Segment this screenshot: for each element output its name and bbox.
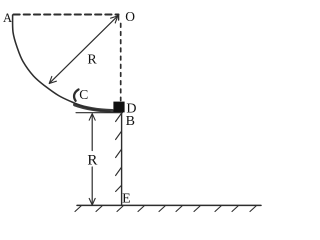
wall hatch 3: [116, 150, 122, 158]
arrowhead at arc end: [49, 76, 56, 83]
wall hatch 1: [116, 114, 122, 122]
measurement line lower segment: [91, 167, 93, 205]
corner tick at O: [118, 15, 120, 21]
wall hatch 2: [116, 132, 122, 140]
arrowhead at O end: [111, 16, 118, 23]
ground line: [77, 204, 261, 206]
svg-text:O: O: [125, 9, 135, 24]
down arrowhead: [89, 198, 95, 205]
dashed vertical line O-D: [120, 24, 122, 101]
arc track A to D: [13, 15, 110, 111]
up arrowhead: [89, 114, 95, 121]
platform underside line: [76, 112, 123, 114]
svg-text:A: A: [3, 11, 12, 25]
svg-text:E: E: [122, 191, 131, 206]
radius R arrow line: [50, 16, 118, 83]
thick track segment near D: [75, 105, 112, 111]
svg-text:R: R: [87, 153, 97, 169]
wall hatch 4: [116, 168, 122, 176]
measurement line upper segment: [91, 115, 93, 151]
small object mark at C: [74, 90, 78, 101]
svg-text:R: R: [87, 53, 97, 68]
wall line B-E: [121, 113, 123, 206]
dashed line A-O: [14, 14, 119, 16]
wall hatch 5: [116, 186, 122, 192]
ground hatch marks: [75, 206, 81, 212]
block at D: [113, 102, 124, 113]
svg-text:B: B: [126, 114, 135, 129]
svg-text:C: C: [79, 87, 88, 102]
